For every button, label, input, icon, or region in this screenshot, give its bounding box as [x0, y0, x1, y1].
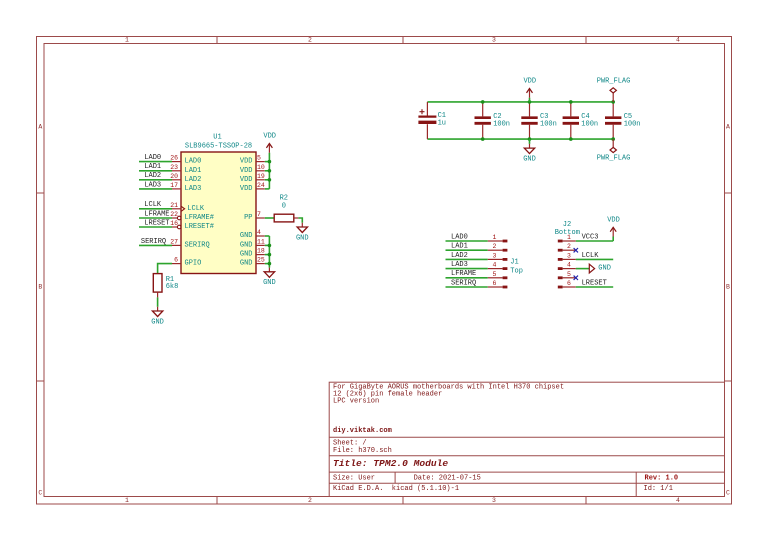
svg-text:LAD1: LAD1	[451, 243, 468, 251]
svg-text:1u: 1u	[438, 120, 446, 128]
wire net LAD1 to J1 pin 2	[446, 249, 488, 251]
J1 pin 2 pad	[488, 249, 503, 251]
svg-text:23: 23	[170, 164, 178, 171]
node junction C4 top	[569, 100, 573, 104]
J2 pin 1 pad	[558, 240, 563, 243]
wire capacitor bank top rail	[427, 101, 613, 103]
title block outline	[329, 382, 724, 496]
U1 pin 26 (LAD0)	[172, 161, 181, 163]
power VDD at J2	[612, 227, 614, 236]
capacitor C5 100n	[605, 116, 621, 119]
svg-text:18: 18	[257, 248, 265, 255]
svg-text:GND: GND	[263, 279, 276, 287]
svg-text:VDD: VDD	[240, 167, 253, 175]
node VDD junction pin 19	[268, 178, 272, 182]
J1 pin 4 pad	[488, 268, 503, 270]
power VDD above C3	[529, 89, 531, 98]
svg-text:2: 2	[493, 243, 497, 250]
svg-text:VCC3: VCC3	[582, 233, 599, 241]
power VDD above U1	[268, 144, 270, 153]
wire net LFRAME to U1	[139, 217, 172, 219]
svg-text:21: 21	[170, 202, 178, 209]
wire C3 to GND	[529, 139, 531, 144]
svg-text:GND: GND	[151, 318, 164, 326]
wire U1 GND pins bus	[268, 236, 270, 268]
wire C3 to VDD	[529, 98, 531, 102]
svg-text:LAD3: LAD3	[451, 261, 468, 269]
capacitor C4 100n	[563, 116, 579, 119]
svg-text:VDD: VDD	[607, 216, 620, 224]
svg-text:LAD0: LAD0	[144, 154, 161, 162]
U1 pin 4 (GND)	[256, 235, 265, 237]
IC U1 SLB9665-TSSOP-28 body	[181, 152, 256, 274]
svg-text:2: 2	[567, 243, 571, 250]
svg-text:Date: 2021-07-15: Date: 2021-07-15	[414, 475, 481, 483]
U1 pin 7 (PP)	[256, 217, 265, 219]
svg-text:26: 26	[170, 155, 178, 162]
svg-text:LAD1: LAD1	[185, 167, 202, 175]
wire net LAD2 to U1	[139, 179, 172, 181]
ground at R2	[301, 223, 303, 227]
svg-text:20: 20	[170, 173, 178, 180]
svg-text:100n: 100n	[624, 120, 641, 128]
svg-text:3: 3	[567, 252, 571, 259]
ground below C3	[529, 144, 531, 148]
sheet outer border	[37, 37, 732, 505]
svg-text:Title: TPM2.0 Module: Title: TPM2.0 Module	[333, 458, 448, 469]
svg-text:5: 5	[493, 271, 497, 278]
wire U1 GPIO to R1	[158, 264, 172, 274]
svg-text:GND: GND	[240, 241, 253, 249]
svg-text:LRESET#: LRESET#	[185, 223, 214, 231]
svg-text:25: 25	[257, 257, 265, 264]
U1 pin 6 (GPIO)	[172, 263, 181, 265]
node junction C5 top	[611, 100, 615, 104]
svg-text:LAD0: LAD0	[451, 233, 468, 241]
no-connect X J2 pin 2	[574, 248, 578, 252]
svg-text:LAD3: LAD3	[185, 185, 202, 193]
frame row ticks left	[37, 192, 45, 194]
wire net LAD3 to J1 pin 4	[446, 268, 488, 270]
J1 pin 3 pad	[488, 258, 503, 260]
svg-text:4: 4	[493, 262, 497, 269]
power PWR_FLAG top	[612, 93, 614, 102]
capacitor C3 100n	[521, 116, 537, 119]
U1 pin 16 (LRESET#)	[172, 226, 177, 228]
svg-text:LAD2: LAD2	[451, 252, 468, 260]
svg-text:diy.viktak.com: diy.viktak.com	[333, 427, 392, 435]
node junction C2 bottom	[481, 137, 485, 141]
wire net SERIRQ to J1 pin 6	[446, 286, 488, 288]
title block column line size-date	[394, 472, 396, 483]
U1 pin 11 (GND)	[256, 244, 265, 246]
node GND junction pin 11	[268, 244, 272, 248]
node junction C2 top	[481, 100, 485, 104]
svg-text:LRESET: LRESET	[582, 279, 607, 287]
svg-text:GND: GND	[296, 234, 309, 242]
wire net LAD0 to U1	[139, 161, 172, 163]
node VDD junction pin 10	[268, 169, 272, 173]
J1 pin 1 pad	[488, 240, 503, 242]
svg-text:GPIO: GPIO	[185, 260, 202, 268]
sheet inner border	[44, 44, 725, 497]
resistor R1	[153, 274, 162, 293]
svg-text:2: 2	[308, 497, 312, 504]
wire net LRESET J2 pin 6	[576, 286, 613, 288]
wire net LCLK J2 pin 3	[576, 258, 613, 260]
wire net LAD3 to U1	[139, 188, 172, 190]
wire net LAD2 to J1 pin 3	[446, 258, 488, 260]
svg-text:LAD0: LAD0	[185, 158, 202, 166]
wire net LRESET to U1	[139, 226, 172, 228]
svg-text:Top: Top	[510, 267, 523, 275]
svg-text:C: C	[726, 490, 730, 497]
svg-text:Size: User: Size: User	[333, 475, 375, 483]
ground below R1	[157, 307, 159, 311]
svg-text:KiCad E.D.A. kicad (5.1.10)-1: KiCad E.D.A. kicad (5.1.10)-1	[333, 485, 459, 493]
frame row ticks right	[725, 192, 732, 194]
svg-text:3: 3	[492, 37, 496, 44]
frame column ticks top	[216, 37, 218, 44]
node junction C5 bottom	[611, 137, 615, 141]
svg-text:LRESET: LRESET	[144, 219, 169, 227]
svg-text:SERIRQ: SERIRQ	[141, 238, 166, 246]
svg-text:Id: 1/1: Id: 1/1	[644, 485, 673, 493]
node VDD junction pin 5	[268, 160, 272, 164]
svg-text:B: B	[38, 284, 42, 291]
svg-text:LFRAME: LFRAME	[144, 210, 169, 218]
svg-text:1: 1	[125, 497, 129, 504]
svg-text:3: 3	[493, 252, 497, 259]
U1 pin 19 (VDD)	[256, 179, 265, 181]
svg-text:LCLK: LCLK	[144, 201, 162, 209]
svg-text:7: 7	[257, 211, 261, 218]
wire J2 pin 4 to GND	[576, 268, 590, 270]
no-connect X J2 pin 5	[574, 276, 578, 280]
svg-text:1: 1	[125, 37, 129, 44]
node GND junction pin 25	[268, 262, 272, 266]
svg-text:VDD: VDD	[240, 176, 253, 184]
svg-text:U1: U1	[213, 134, 221, 142]
svg-text:PWR_FLAG: PWR_FLAG	[597, 155, 631, 163]
svg-text:11: 11	[257, 238, 265, 245]
svg-text:LAD1: LAD1	[144, 163, 161, 171]
svg-text:1: 1	[493, 234, 497, 241]
node junction C4 bottom	[569, 137, 573, 141]
svg-text:22: 22	[170, 211, 178, 218]
svg-text:19: 19	[257, 173, 265, 180]
ground right at J2 pin 4	[589, 264, 594, 273]
svg-text:GND: GND	[240, 232, 253, 240]
svg-text:R2: R2	[280, 194, 288, 202]
svg-text:VDD: VDD	[240, 158, 253, 166]
svg-text:J1: J1	[510, 259, 518, 267]
title block row lines	[329, 436, 724, 438]
svg-text:1: 1	[567, 234, 571, 241]
svg-text:SERIRQ: SERIRQ	[451, 279, 476, 287]
svg-text:A: A	[726, 124, 730, 131]
U1 pin 21 (LCLK)	[172, 208, 181, 210]
svg-text:PWR_FLAG: PWR_FLAG	[597, 78, 631, 86]
svg-text:A: A	[38, 124, 42, 131]
J2 pin 5 pad	[558, 276, 563, 279]
svg-text:LAD3: LAD3	[144, 181, 161, 189]
svg-text:J2: J2	[563, 221, 571, 229]
U1 pin 24 (VDD)	[256, 188, 265, 190]
svg-text:0: 0	[282, 203, 286, 211]
svg-text:24: 24	[257, 182, 265, 189]
wire net SERIRQ to U1	[139, 244, 172, 246]
svg-text:PP: PP	[244, 214, 252, 222]
U1 pin 25 (GND)	[256, 263, 265, 265]
svg-text:VDD: VDD	[240, 185, 253, 193]
U1 pin 22 (LFRAME#)	[172, 217, 177, 219]
svg-text:4: 4	[567, 262, 571, 269]
wire net VCC3 J2 pin 1	[576, 240, 613, 242]
resistor R2	[274, 214, 294, 222]
svg-text:GND: GND	[240, 260, 253, 268]
svg-text:Rev: 1.0: Rev: 1.0	[645, 474, 679, 482]
ground below U1	[268, 268, 270, 272]
svg-text:4: 4	[676, 37, 680, 44]
U1 pin 23 (LAD1)	[172, 170, 181, 172]
svg-text:LPC version: LPC version	[333, 398, 379, 406]
svg-text:LAD2: LAD2	[185, 176, 202, 184]
wire U1 PP to R2	[265, 217, 274, 219]
svg-text:17: 17	[170, 182, 178, 189]
svg-text:GND: GND	[240, 251, 253, 259]
svg-text:C: C	[38, 490, 42, 497]
svg-text:LAD2: LAD2	[144, 172, 161, 180]
svg-text:100n: 100n	[540, 120, 557, 128]
U1 pin 5 (VDD)	[256, 161, 265, 163]
svg-text:LCLK: LCLK	[582, 252, 600, 260]
J2 pin 4 pad	[558, 267, 563, 270]
U1 pin 27 (SERIRQ)	[172, 244, 181, 246]
svg-text:5: 5	[257, 155, 261, 162]
svg-text:VDD: VDD	[523, 78, 536, 86]
wire net LAD1 to U1	[139, 170, 172, 172]
svg-text:5: 5	[567, 271, 571, 278]
svg-text:VDD: VDD	[263, 133, 276, 141]
node GND junction pin 18	[268, 253, 272, 257]
svg-text:File: h370.sch: File: h370.sch	[333, 447, 392, 455]
svg-text:6: 6	[493, 280, 497, 287]
svg-text:LCLK: LCLK	[187, 205, 205, 213]
power PWR_FLAG bottom	[612, 139, 614, 147]
svg-text:6k8: 6k8	[166, 283, 179, 291]
J2 pin 6 pad	[558, 286, 563, 289]
svg-text:2: 2	[308, 37, 312, 44]
title block column line rev-id	[635, 472, 637, 496]
svg-text:100n: 100n	[493, 120, 510, 128]
svg-text:B: B	[726, 284, 730, 291]
U1 pin 17 (LAD3)	[172, 188, 181, 190]
wire R2 to GND	[298, 218, 302, 223]
U1 pin 10 (VDD)	[256, 170, 265, 172]
J2 pin 3 pad	[558, 258, 563, 261]
wire net LFRAME to J1 pin 5	[446, 277, 488, 279]
svg-text:6: 6	[567, 280, 571, 287]
svg-text:SERIRQ: SERIRQ	[185, 241, 210, 249]
U1 pin 20 (LAD2)	[172, 179, 181, 181]
svg-text:LFRAME#: LFRAME#	[185, 214, 214, 222]
capacitor C2 100n	[475, 116, 491, 119]
svg-text:SLB9665-TSSOP-28: SLB9665-TSSOP-28	[185, 142, 252, 150]
J1 pin 6 pad	[488, 286, 503, 288]
svg-text:100n: 100n	[581, 120, 598, 128]
svg-text:LFRAME: LFRAME	[451, 270, 476, 278]
svg-text:16: 16	[170, 220, 178, 227]
svg-text:4: 4	[676, 497, 680, 504]
svg-text:10: 10	[257, 164, 265, 171]
capacitor C1 polarized 1u	[418, 115, 436, 117]
svg-text:6: 6	[174, 257, 178, 264]
U1 pin 18 (GND)	[256, 254, 265, 256]
svg-text:GND: GND	[598, 265, 611, 273]
J2 pin 2 pad	[558, 249, 563, 252]
wire net LAD0 to J1 pin 1	[446, 240, 488, 242]
svg-text:27: 27	[170, 238, 178, 245]
wire capacitor bank bottom rail	[427, 138, 613, 140]
svg-text:3: 3	[492, 497, 496, 504]
wire R1 to GND	[157, 297, 159, 306]
node junction C3 bottom	[528, 137, 532, 141]
wire U1 VDD pins bus	[268, 153, 270, 189]
frame column ticks bottom	[216, 497, 218, 505]
J1 pin 5 pad	[488, 277, 503, 279]
wire net LCLK to U1	[139, 208, 172, 210]
svg-text:GND: GND	[523, 156, 536, 164]
svg-text:4: 4	[257, 229, 261, 236]
node junction C3 top	[528, 100, 532, 104]
